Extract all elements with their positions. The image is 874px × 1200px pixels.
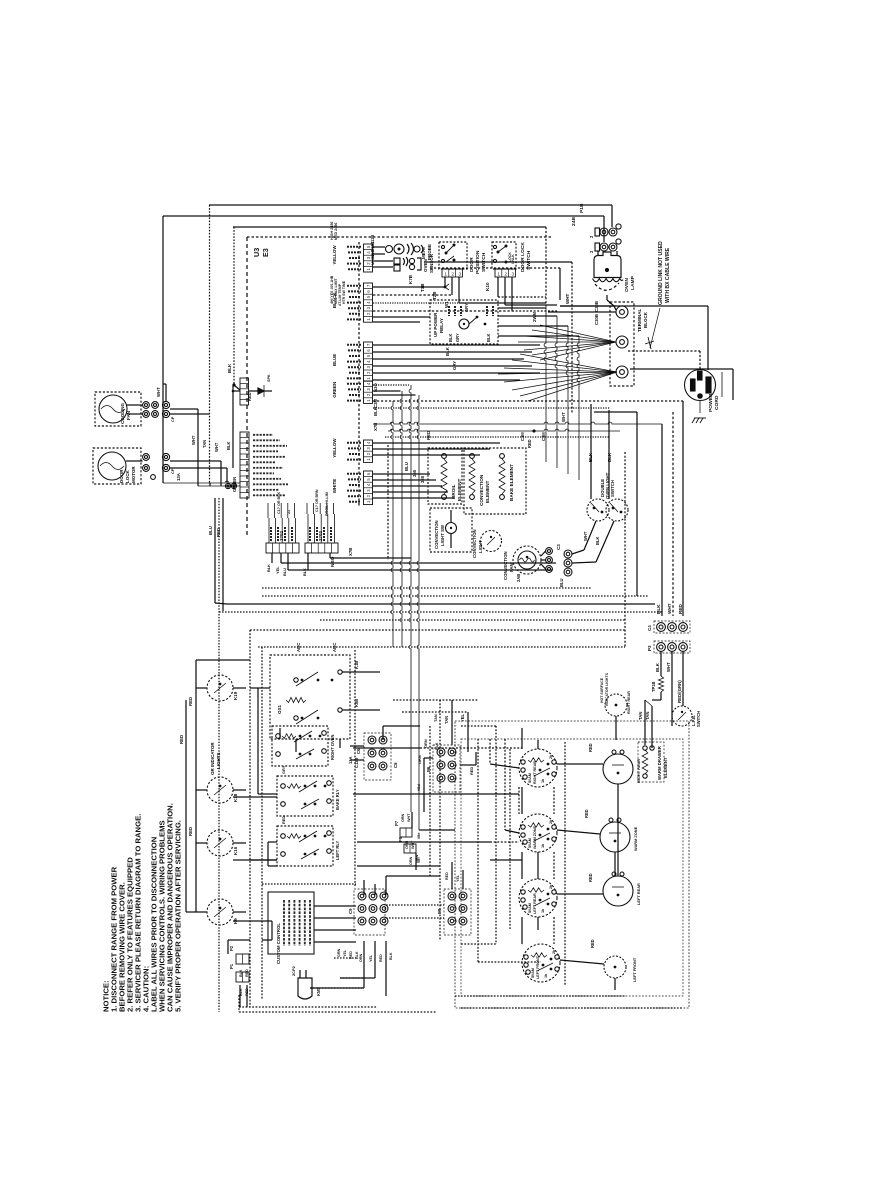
connector P9 — [437, 889, 471, 935]
warm drawer element — [638, 700, 668, 782]
wire blue labels — [445, 346, 457, 370]
svg-text:WARM ZONE: WARM ZONE — [633, 826, 638, 851]
sensor mini labels — [330, 222, 346, 306]
svg-text:BAKE RLY: BAKE RLY — [335, 789, 340, 810]
svg-text:13A: 13A — [176, 473, 181, 481]
svg-text:RED: RED — [281, 816, 286, 824]
wire right box inner verticals — [478, 726, 510, 962]
svg-text:2WM: 2WM — [532, 312, 537, 322]
wire P3 drops — [661, 651, 683, 726]
svg-text:RED: RED — [245, 969, 249, 977]
svg-text:YEL: YEL — [343, 949, 347, 957]
wire oven lamp feed — [598, 251, 617, 310]
svg-text:WARM ZONE: WARM ZONE — [533, 826, 537, 849]
wire os1 out — [342, 661, 380, 710]
custom control module — [268, 892, 314, 964]
svg-text:LEFT REAR: LEFT REAR — [636, 883, 641, 905]
box right outer — [455, 721, 689, 1008]
connector P5 small — [398, 836, 419, 865]
board U3 outline — [247, 237, 552, 538]
box right inner — [461, 739, 683, 996]
svg-text:CONVECTION: CONVECTION — [503, 551, 508, 580]
terminal block — [610, 302, 648, 386]
switch oven selector — [270, 643, 350, 739]
svg-text:1b: 1b — [541, 908, 545, 913]
double oven light switch — [587, 404, 628, 521]
svg-text:RED: RED — [426, 431, 431, 440]
box lower inner — [261, 647, 263, 1000]
wire right box inner drops — [490, 739, 519, 833]
wire inner dotted verticals — [355, 650, 565, 985]
svg-text:LEFT RLY: LEFT RLY — [335, 841, 340, 860]
wire bus 563 — [281, 562, 556, 564]
svg-text:COOLING: COOLING — [120, 403, 125, 424]
ground link arrow — [645, 308, 660, 349]
wire left TAN — [170, 414, 210, 448]
connector C9 — [348, 889, 393, 962]
surface unit warm zone — [600, 818, 638, 852]
wire left vertical — [162, 216, 164, 483]
connector C3 — [556, 544, 596, 587]
wire p6 up — [417, 700, 476, 812]
wire BLK junction — [232, 385, 240, 468]
switch bank 1 — [272, 726, 335, 766]
svg-text:RED: RED — [678, 603, 683, 614]
svg-text:K10: K10 — [485, 282, 490, 291]
svg-text:YELLOW: YELLOW — [332, 438, 337, 458]
svg-text:YEL: YEL — [460, 714, 465, 722]
svg-text:OVEN: OVEN — [624, 278, 630, 292]
svg-text:WHITE: WHITE — [332, 479, 337, 494]
svg-text:50AM: 50AM — [528, 903, 532, 913]
svg-text:YEL: YEL — [275, 566, 280, 574]
wire long 412 — [561, 412, 637, 596]
svg-text:RED: RED — [590, 939, 595, 948]
svg-text:LEFT FRONT: LEFT FRONT — [632, 957, 637, 982]
svg-text:BLK: BLK — [435, 742, 439, 750]
svg-text:P2: P2 — [229, 945, 234, 951]
svg-text:POWER: POWER — [708, 393, 714, 412]
wire fan WHT up — [156, 384, 166, 401]
svg-text:2AB: 2AB — [516, 574, 521, 582]
svg-text:ORN: ORN — [359, 953, 363, 962]
svg-text:WHT: WHT — [666, 662, 671, 672]
svg-text:WHT: WHT — [565, 294, 570, 304]
svg-text:WHT: WHT — [583, 531, 588, 541]
svg-text:YELLOW: YELLOW — [332, 245, 337, 265]
wire os1 to banks — [280, 728, 340, 752]
svg-text:OVEN: OVEN — [423, 259, 428, 272]
indicator light K9 — [196, 899, 246, 925]
svg-text:CP: CP — [170, 468, 175, 474]
connector strip P13 black — [332, 283, 373, 322]
svg-text:RED: RED — [445, 872, 449, 880]
board U3 label — [252, 248, 270, 257]
wire 498 — [373, 497, 454, 499]
indicator light K19 — [196, 675, 246, 701]
connector 3702 — [266, 492, 299, 553]
svg-text:C1? OR BRN: C1? OR BRN — [315, 489, 319, 512]
svg-text:WHT: WHT — [156, 387, 161, 397]
svg-text:24B: 24B — [571, 217, 577, 226]
wire cord bracket — [721, 372, 723, 397]
connector strip P15 green — [332, 381, 373, 403]
wire p9 up — [445, 862, 463, 889]
connector P1 left — [229, 963, 249, 996]
svg-text:ABC: ABC — [296, 643, 301, 652]
svg-text:HTR SW TIME: HTR SW TIME — [342, 280, 346, 304]
wire K7B — [373, 274, 449, 290]
svg-text:K16: K16 — [233, 846, 238, 855]
svg-text:#8d: #8d — [416, 784, 421, 791]
wire 299 — [373, 291, 459, 303]
svg-text:ORN: ORN — [417, 755, 422, 764]
svg-text:YEL: YEL — [456, 874, 460, 882]
connector fan pins — [162, 401, 175, 422]
svg-text:1b: 1b — [541, 843, 545, 848]
wire bottom right lines — [455, 996, 683, 1008]
node C30B labels — [594, 301, 599, 325]
svg-text:C6: C6 — [356, 748, 361, 754]
svg-text:RIGHT REAR: RIGHT REAR — [636, 759, 641, 783]
convection light — [472, 529, 502, 558]
wire oven sensor leads — [370, 235, 393, 267]
connector C4 — [647, 621, 690, 633]
svg-text:SENSOR: SENSOR — [429, 253, 434, 273]
convection light relay — [430, 508, 472, 552]
svg-text:LEFT FRONT: LEFT FRONT — [536, 955, 540, 979]
svg-text:P5: P5 — [398, 836, 403, 842]
svg-text:DOOR: DOOR — [119, 469, 124, 483]
connector dlm pins — [162, 453, 175, 474]
wire sensor long lines — [424, 262, 572, 300]
svg-text:UP POWER: UP POWER — [433, 312, 438, 337]
surface unit left rear — [603, 872, 641, 906]
wire long 431 — [388, 429, 620, 448]
wire strip-block verticals — [268, 503, 333, 518]
connector red strip — [240, 374, 272, 405]
wire WHT drop dashed — [565, 262, 572, 414]
svg-text:MOTOR: MOTOR — [131, 466, 136, 483]
wire 366 — [373, 365, 532, 367]
svg-text:1b: 1b — [544, 973, 548, 978]
svg-text:CORD: CORD — [714, 395, 720, 410]
wire bank feeds — [250, 688, 277, 866]
oven sensor parts — [394, 253, 434, 273]
svg-text:MEAT: MEAT — [421, 246, 426, 259]
svg-text:ORN: ORN — [405, 840, 409, 849]
svg-text:50AM: 50AM — [528, 773, 532, 783]
wire RED dotted down — [218, 498, 220, 1012]
svg-text:TERMINAL: TERMINAL — [637, 309, 642, 332]
wire bundle v4 — [417, 395, 455, 830]
svg-text:RED: RED — [188, 697, 193, 706]
wire indicator h — [233, 797, 277, 940]
svg-text:HOT SURFACE: HOT SURFACE — [600, 677, 604, 703]
svg-text:C3: C3 — [556, 544, 561, 550]
wire 443 — [373, 431, 500, 443]
wire g408 — [373, 406, 610, 416]
svg-text:RIGHT OVEN: RIGHT OVEN — [330, 734, 335, 760]
wire left WHT2 — [170, 442, 221, 483]
svg-text:350: 350 — [412, 469, 417, 477]
burner switch warm zone — [519, 814, 557, 852]
wire bundle v2 — [400, 391, 402, 647]
svg-text:RED/(GRN): RED/(GRN) — [677, 680, 682, 703]
node 2WM label — [532, 312, 537, 322]
svg-text:C30B: C30B — [594, 314, 599, 325]
svg-text:SWITCH: SWITCH — [696, 711, 701, 727]
wire bus 612 — [219, 611, 662, 613]
wire 480 — [373, 469, 436, 480]
wire c6 links — [350, 726, 420, 760]
wire 305 — [373, 301, 512, 311]
wire bus 647 — [258, 646, 625, 648]
wire bank out — [353, 748, 490, 866]
wire g401 — [373, 399, 683, 408]
svg-text:BLU: BLU — [404, 462, 409, 471]
wire right box horiz — [461, 726, 541, 962]
wire left WHT — [170, 409, 198, 483]
wire bank3 out links — [490, 842, 522, 860]
wire xtb — [330, 548, 411, 558]
wire fanout low — [498, 354, 617, 401]
svg-text:RED: RED — [379, 954, 383, 962]
svg-text:BLK: BLK — [656, 604, 661, 614]
indicator label — [210, 742, 221, 775]
svg-text:RIGHT REAR: RIGHT REAR — [627, 691, 631, 714]
indicator light K16 — [196, 830, 246, 856]
wire relay out — [498, 308, 579, 336]
svg-text:ELEMENT: ELEMENT — [663, 757, 668, 778]
svg-text:SPK: SPK — [267, 374, 271, 382]
wire bundle mid — [544, 306, 579, 480]
wire p1p2 drop — [228, 940, 250, 1007]
wire fanout mid — [518, 325, 616, 360]
wire bus 620 — [320, 619, 625, 621]
wire RED feeds — [179, 660, 250, 912]
svg-text:BLK: BLK — [445, 346, 450, 356]
svg-text:RED: RED — [179, 735, 184, 744]
ground link note — [658, 241, 671, 305]
svg-text:RED: RED — [216, 528, 221, 537]
node P1B label — [571, 203, 585, 226]
svg-text:TAN: TAN — [433, 714, 438, 722]
svg-text:TAN: TAN — [638, 711, 643, 720]
connector P7 small — [394, 813, 415, 849]
svg-text:GRN: GRN — [337, 948, 341, 957]
svg-text:BLK: BLK — [655, 662, 660, 672]
wire bus 596 — [262, 595, 648, 597]
door position switch — [439, 242, 490, 291]
svg-text:BAKE ELEMENT: BAKE ELEMENT — [509, 464, 514, 501]
svg-text:BLU: BLU — [282, 568, 287, 576]
wire bottom mid extra — [393, 700, 478, 940]
svg-text:#8e: #8e — [416, 832, 421, 839]
svg-text:LAMP: LAMP — [630, 275, 636, 290]
wire 455 — [373, 454, 480, 456]
svg-text:MHOB: MHOB — [370, 253, 375, 265]
wire green feeds — [163, 481, 240, 488]
svg-text:GREEN: GREEN — [332, 382, 337, 398]
svg-text:X7B: X7B — [373, 423, 378, 431]
notice text — [102, 803, 183, 1012]
node BLK label — [227, 363, 240, 390]
svg-text:LOCK: LOCK — [125, 470, 130, 483]
wire bank1 to burner col — [420, 747, 522, 749]
svg-text:BLK: BLK — [486, 334, 491, 342]
svg-text:BLK: BLK — [302, 568, 307, 576]
svg-text:RED: RED — [188, 827, 193, 836]
wire g385 — [373, 383, 409, 392]
door lock motor — [93, 448, 155, 484]
wire C4 drops — [662, 401, 683, 616]
wire P3 labels — [655, 662, 682, 703]
connector P6 — [426, 742, 460, 792]
svg-text:ELEMENT: ELEMENT — [457, 478, 462, 501]
wire top bus 3 — [233, 227, 546, 306]
svg-text:2b: 2b — [549, 884, 553, 889]
wire left vertical 2 — [233, 227, 235, 385]
door lock switch — [492, 242, 532, 277]
wire 380 — [373, 379, 520, 381]
meat probe connector — [386, 243, 433, 260]
connector P3 — [647, 641, 690, 653]
wire left box bottom hwires — [262, 884, 356, 978]
svg-text:BLK: BLK — [448, 334, 453, 342]
cooling fan motor — [95, 392, 158, 426]
wire c9 drops — [310, 941, 386, 996]
svg-text:OS1: OS1 — [277, 704, 282, 714]
wire c9 ups — [364, 876, 440, 895]
wire C13B — [373, 283, 452, 295]
svg-text:BLU: BLU — [559, 579, 564, 587]
svg-text:RED: RED — [247, 392, 252, 401]
svg-text:RED: RED — [469, 767, 474, 775]
svg-text:FAN: FAN — [509, 563, 514, 572]
svg-text:WHT: WHT — [561, 412, 566, 422]
box oven mid — [388, 445, 625, 648]
svg-text:C9: C9 — [348, 908, 353, 914]
wire RED down — [216, 498, 223, 611]
svg-text:LEFT REAR: LEFT REAR — [533, 893, 537, 914]
connector 2702 — [305, 489, 338, 553]
svg-text:3702: 3702 — [279, 530, 284, 541]
svg-text:LIGHTS: LIGHTS — [216, 753, 221, 770]
svg-text:BLK: BLK — [227, 363, 232, 373]
wire burner verticals 2 — [553, 787, 555, 944]
svg-text:BLK: BLK — [226, 442, 231, 450]
convection fan motor — [503, 546, 552, 582]
wire surf links — [615, 716, 618, 990]
wire BLU down — [208, 498, 227, 604]
wire bus 604 — [227, 603, 655, 605]
svg-text:INDICATOR LIGHTS: INDICATOR LIGHTS — [605, 672, 609, 706]
svg-text:CONVECTION: CONVECTION — [479, 474, 484, 506]
svg-text:ORN: ORN — [401, 813, 405, 822]
indicator light K18 — [196, 777, 246, 803]
svg-text:2b: 2b — [549, 754, 553, 759]
svg-text:SWITCH: SWITCH — [610, 480, 615, 497]
svg-text:WHT: WHT — [407, 813, 411, 822]
wire 317 — [373, 317, 430, 322]
burner switch right rear — [519, 749, 557, 787]
wire bundle v3 — [409, 385, 411, 812]
svg-text:GRY: GRY — [455, 333, 460, 342]
svg-text:UNLK: UNLK — [511, 254, 515, 264]
svg-text:E3: E3 — [261, 248, 270, 257]
svg-text:LIGHT SW: LIGHT SW — [440, 524, 445, 546]
connector strip P12 yellow — [332, 244, 373, 272]
svg-text:RELAY: RELAY — [439, 318, 444, 333]
svg-text:320: 320 — [420, 475, 425, 483]
connector P18 A — [589, 224, 621, 238]
wire c9 to p9 — [386, 905, 444, 918]
wire bus 570 — [288, 556, 552, 570]
burner switch left rear — [519, 879, 557, 917]
surface unit right rear — [603, 750, 641, 784]
wire top bus 2 — [163, 216, 604, 242]
connector green strip — [232, 432, 288, 498]
svg-text:K19: K19 — [233, 691, 238, 700]
wire 359 — [373, 358, 524, 360]
svg-text:SWITCH: SWITCH — [526, 250, 532, 270]
burner switch left front — [522, 944, 560, 982]
svg-text:C8: C8 — [393, 762, 398, 768]
svg-text:WHT: WHT — [191, 435, 196, 445]
svg-text:LIGHT: LIGHT — [478, 540, 483, 553]
switch bank 2 — [277, 765, 340, 816]
element convection — [464, 448, 526, 514]
svg-text:50AM: 50AM — [531, 968, 535, 978]
wire long 437 — [385, 436, 610, 438]
svg-text:WARM DRAWER: WARM DRAWER — [657, 745, 662, 780]
svg-text:BLK: BLK — [595, 537, 600, 545]
svg-text:RED: RED — [588, 873, 593, 882]
switch bank 3 — [277, 816, 340, 866]
connector C6 — [348, 733, 398, 780]
svg-text:C3M: C3M — [373, 399, 378, 408]
svg-text:X7B: X7B — [348, 548, 353, 556]
svg-text:CP: CP — [170, 416, 175, 422]
svg-text:WITH BX CABLE WIRE: WITH BX CABLE WIRE — [665, 247, 671, 303]
wire 373 — [373, 372, 540, 374]
svg-text:DOOR: DOOR — [469, 257, 475, 272]
svg-text:DOOR LOCK: DOOR LOCK — [520, 242, 526, 272]
svg-text:YEL: YEL — [369, 954, 373, 962]
svg-text:RED: RED — [584, 809, 589, 818]
svg-text:BLU: BLU — [208, 526, 213, 535]
svg-text:50AM: 50AM — [528, 838, 532, 848]
coil TP1B — [651, 676, 664, 700]
wire tb top leads — [548, 306, 616, 312]
svg-text:2b: 2b — [549, 819, 553, 824]
svg-text:BLUE: BLUE — [332, 354, 337, 366]
svg-text:TAN: TAN — [202, 440, 207, 448]
svg-text:5. VERIFY PROPER OPERATION AFT: 5. VERIFY PROPER OPERATION AFTER SERVICI… — [174, 820, 183, 1012]
svg-text:U3: U3 — [252, 248, 261, 257]
buzzer — [291, 965, 321, 999]
wire bank2 to burner col — [490, 787, 519, 814]
svg-text:BLK: BLK — [373, 406, 378, 416]
svg-text:MED 2456: MED 2456 — [334, 223, 338, 240]
svg-text:WHT: WHT — [667, 603, 672, 614]
svg-text:SWITCH: SWITCH — [481, 252, 487, 272]
svg-text:1b: 1b — [541, 778, 545, 783]
connector strip P16 yellow2 — [332, 438, 373, 463]
svg-text:GRY: GRY — [281, 765, 286, 774]
connector P18 B — [589, 239, 621, 253]
